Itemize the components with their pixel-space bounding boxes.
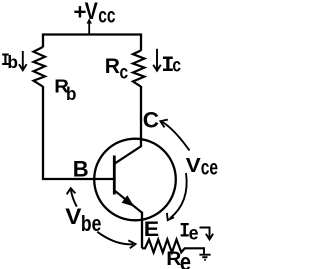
- svg-text:c: c: [172, 54, 181, 76]
- svg-text:E: E: [144, 217, 159, 241]
- svg-text:e: e: [189, 222, 199, 244]
- svg-text:C: C: [143, 108, 159, 133]
- annotation arrow Vce to C: [160, 120, 189, 151]
- label Vce: [186, 155, 218, 179]
- annotation arrow Vbe to B: [67, 188, 77, 206]
- wire collector branch lower: [140, 86, 142, 147]
- resistor Re: [142, 240, 204, 253]
- wire left branch upper: [42, 33, 44, 47]
- transistor Q1 collector lead: [114, 146, 141, 164]
- current arrow Ie corner: [200, 228, 214, 240]
- svg-text:B: B: [73, 156, 89, 181]
- svg-text:c: c: [120, 61, 129, 83]
- label Re: [166, 249, 191, 269]
- transistor Q1 base bar: [113, 156, 116, 195]
- label Rc: [105, 55, 129, 83]
- svg-text:V: V: [65, 204, 82, 229]
- label Vbe: [65, 204, 101, 236]
- annotation arrow Vce to E: [167, 173, 187, 220]
- wire top rail Vcc: [43, 33, 141, 35]
- svg-text:b: b: [7, 52, 18, 72]
- resistor Rc: [133, 51, 145, 87]
- transistor Q1 emitter lead: [114, 190, 142, 212]
- label Rb: [54, 76, 76, 104]
- svg-text:ce: ce: [201, 155, 218, 179]
- label Ib: [1, 49, 18, 72]
- transistor Q1 body circle: [94, 139, 176, 221]
- current arrow Ic: [153, 49, 161, 71]
- svg-text:cc: cc: [98, 3, 115, 27]
- svg-text:b: b: [66, 83, 77, 104]
- label Ie: [179, 220, 198, 244]
- svg-text:V: V: [85, 0, 98, 24]
- svg-text:V: V: [186, 155, 201, 177]
- ground: [199, 247, 210, 259]
- svg-text:e: e: [180, 249, 191, 269]
- wire left branch lower: [42, 86, 44, 179]
- svg-text:R: R: [105, 55, 120, 78]
- power +Vcc arrow stub: [87, 18, 92, 34]
- label Ic: [161, 53, 181, 78]
- wire collector branch upper: [140, 33, 142, 50]
- wire base: [42, 178, 114, 180]
- transistor Q1 emitter arrow: [122, 195, 135, 206]
- wire emitter: [141, 212, 143, 249]
- annotation arrow Vbe to E: [97, 232, 135, 249]
- current arrow Ib: [19, 51, 27, 70]
- resistor Rb: [34, 47, 46, 87]
